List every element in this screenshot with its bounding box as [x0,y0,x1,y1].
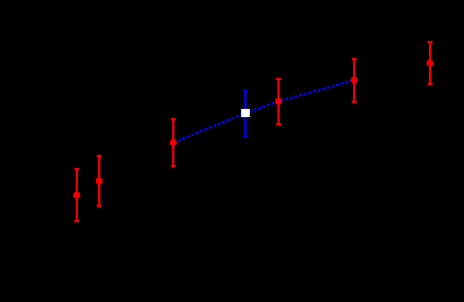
red point P1 error bar [74,169,79,221]
red point P6 marker [426,59,433,66]
red point P5 error bar [352,59,357,102]
red point P2 marker [96,177,103,184]
blue point B1 error bar [243,91,247,136]
red point P6 error bar [428,42,433,84]
red point P4 error bar [276,79,281,124]
red point P3 marker [170,139,177,146]
red point P1 marker [73,192,80,199]
red point P3 error bar [171,119,176,166]
red point P2 error bar [97,156,102,206]
model dashed line (blue polyline) [173,80,354,143]
blue point B1 marker (white square) [241,109,250,117]
red point P4 marker [275,98,282,105]
red point P5 marker [351,76,358,83]
